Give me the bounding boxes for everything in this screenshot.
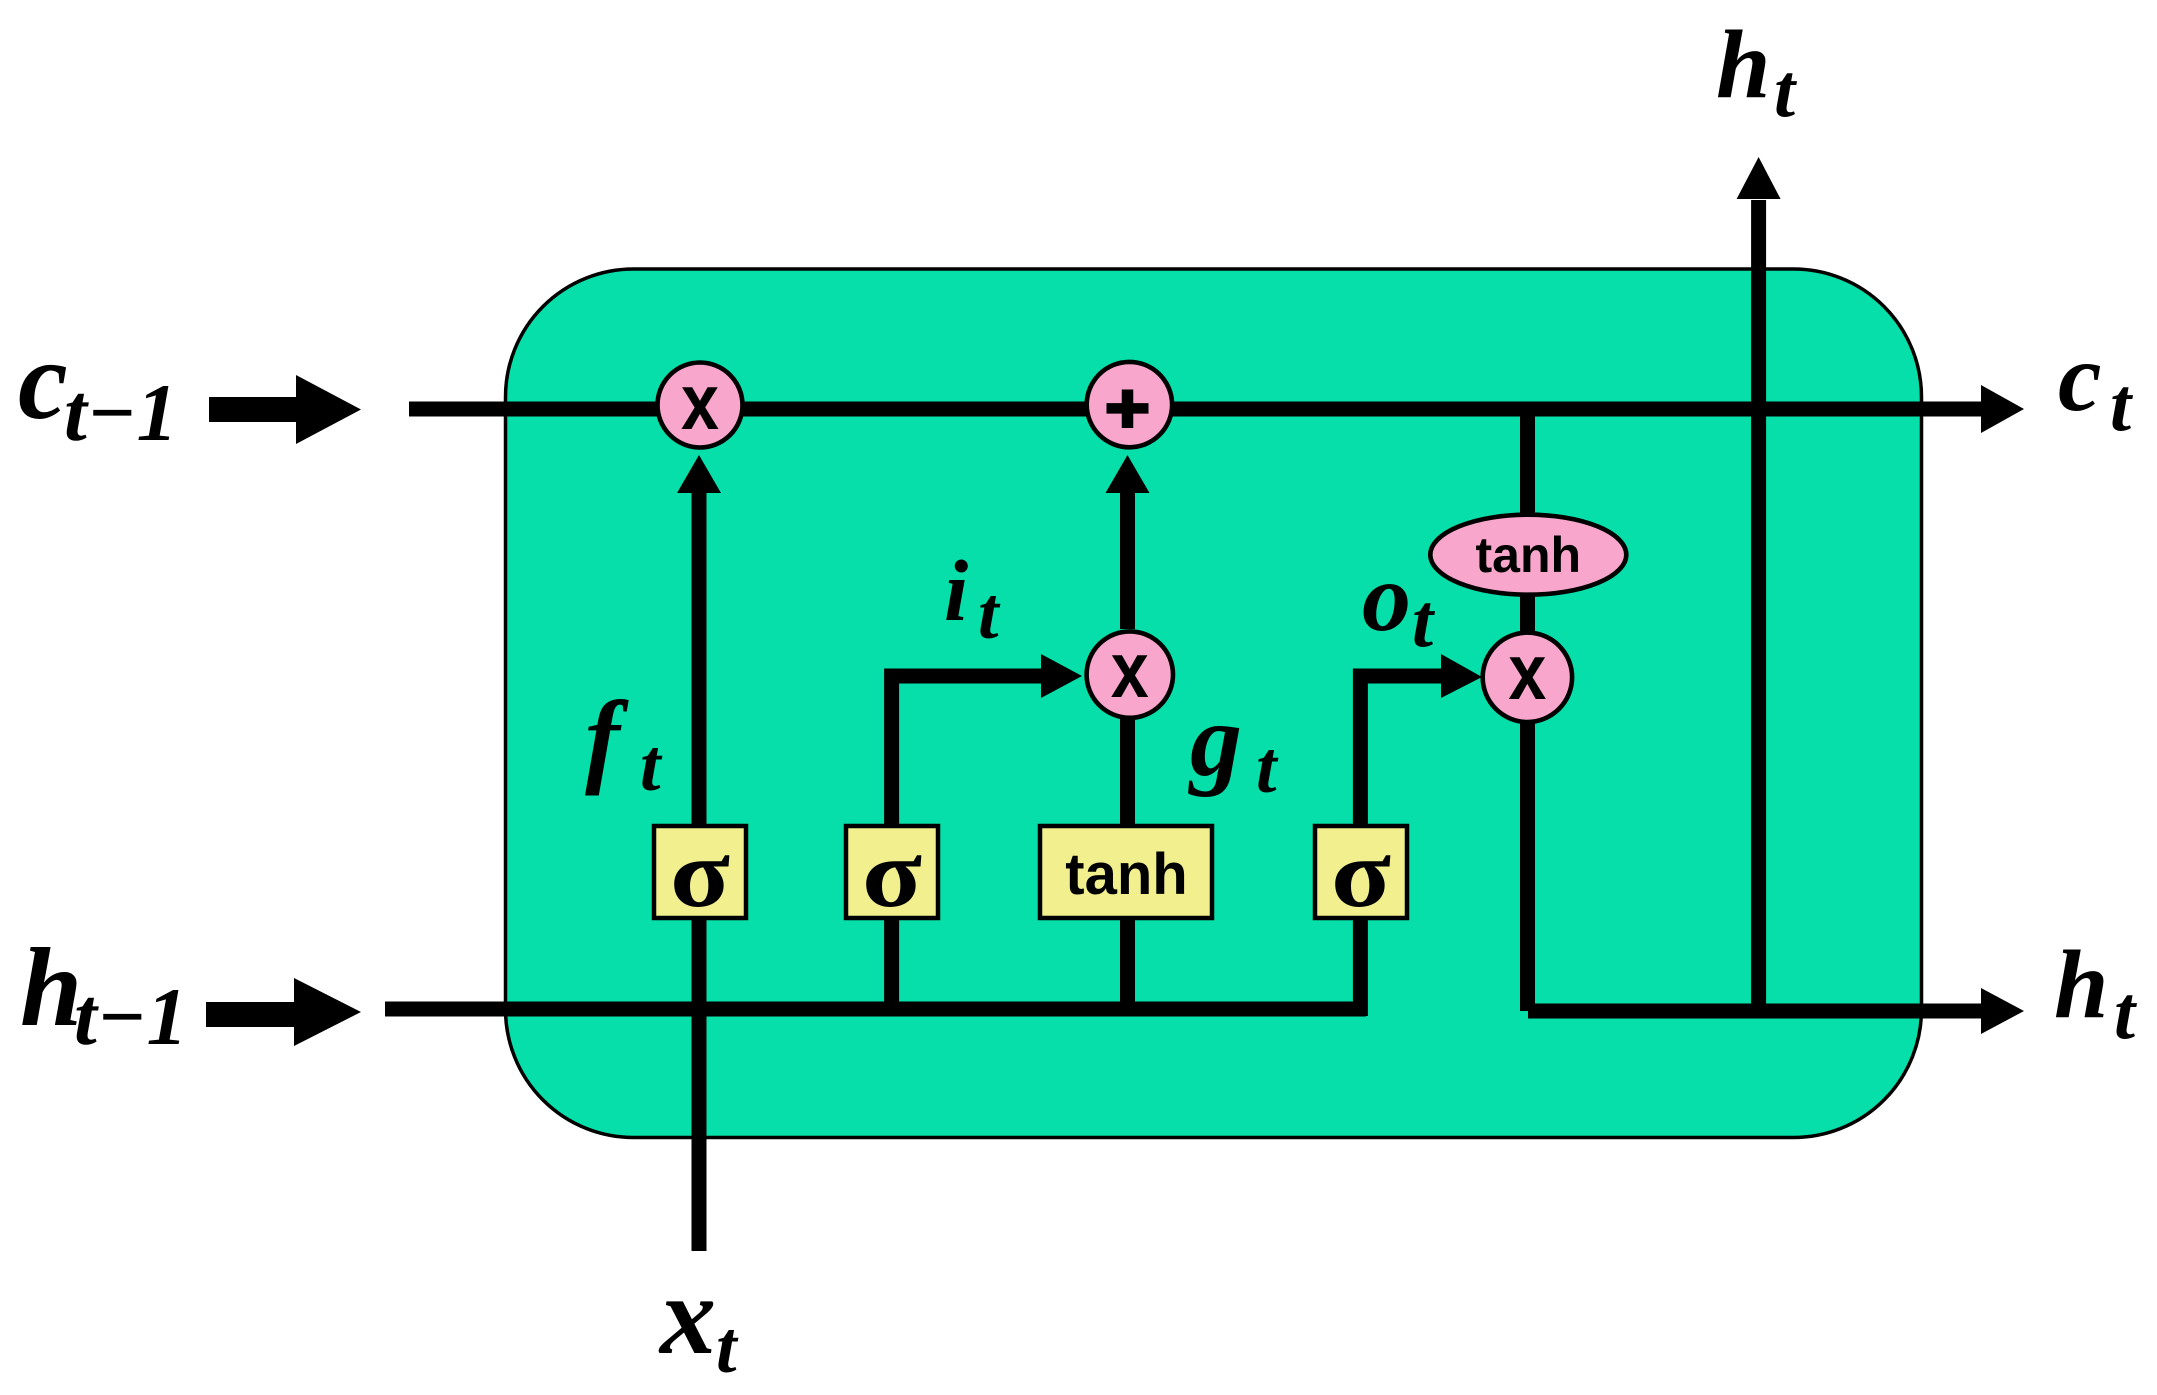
svg-text:t: t (1774, 49, 1798, 133)
svg-text:σ: σ (670, 820, 730, 928)
svg-text:σ: σ (862, 820, 922, 928)
svg-text:tanh: tanh (1065, 842, 1187, 907)
svg-text:t−1: t−1 (74, 971, 187, 1062)
svg-text:i: i (944, 542, 968, 639)
svg-text:t: t (716, 1307, 739, 1389)
svg-text:c: c (2058, 324, 2102, 432)
svg-text:σ: σ (1331, 820, 1391, 928)
svg-text:x: x (681, 357, 719, 446)
svg-text:t: t (1256, 727, 1279, 809)
svg-text:t: t (2110, 363, 2134, 447)
svg-text:h: h (20, 926, 82, 1050)
svg-text:t: t (978, 573, 1001, 655)
svg-text:t: t (2114, 971, 2138, 1055)
svg-text:x: x (1111, 625, 1149, 714)
svg-text:x: x (1508, 627, 1546, 716)
svg-text:h: h (1716, 11, 1771, 119)
svg-text:t−1: t−1 (64, 367, 177, 458)
svg-text:g: g (1188, 683, 1242, 798)
svg-text:c: c (18, 319, 68, 443)
svg-text:tanh: tanh (1476, 527, 1582, 583)
svg-text:h: h (2054, 931, 2109, 1039)
svg-text:t: t (640, 725, 663, 807)
svg-text:o: o (1362, 544, 1411, 652)
svg-text:t: t (1412, 579, 1436, 663)
svg-text:x: x (658, 1254, 716, 1378)
